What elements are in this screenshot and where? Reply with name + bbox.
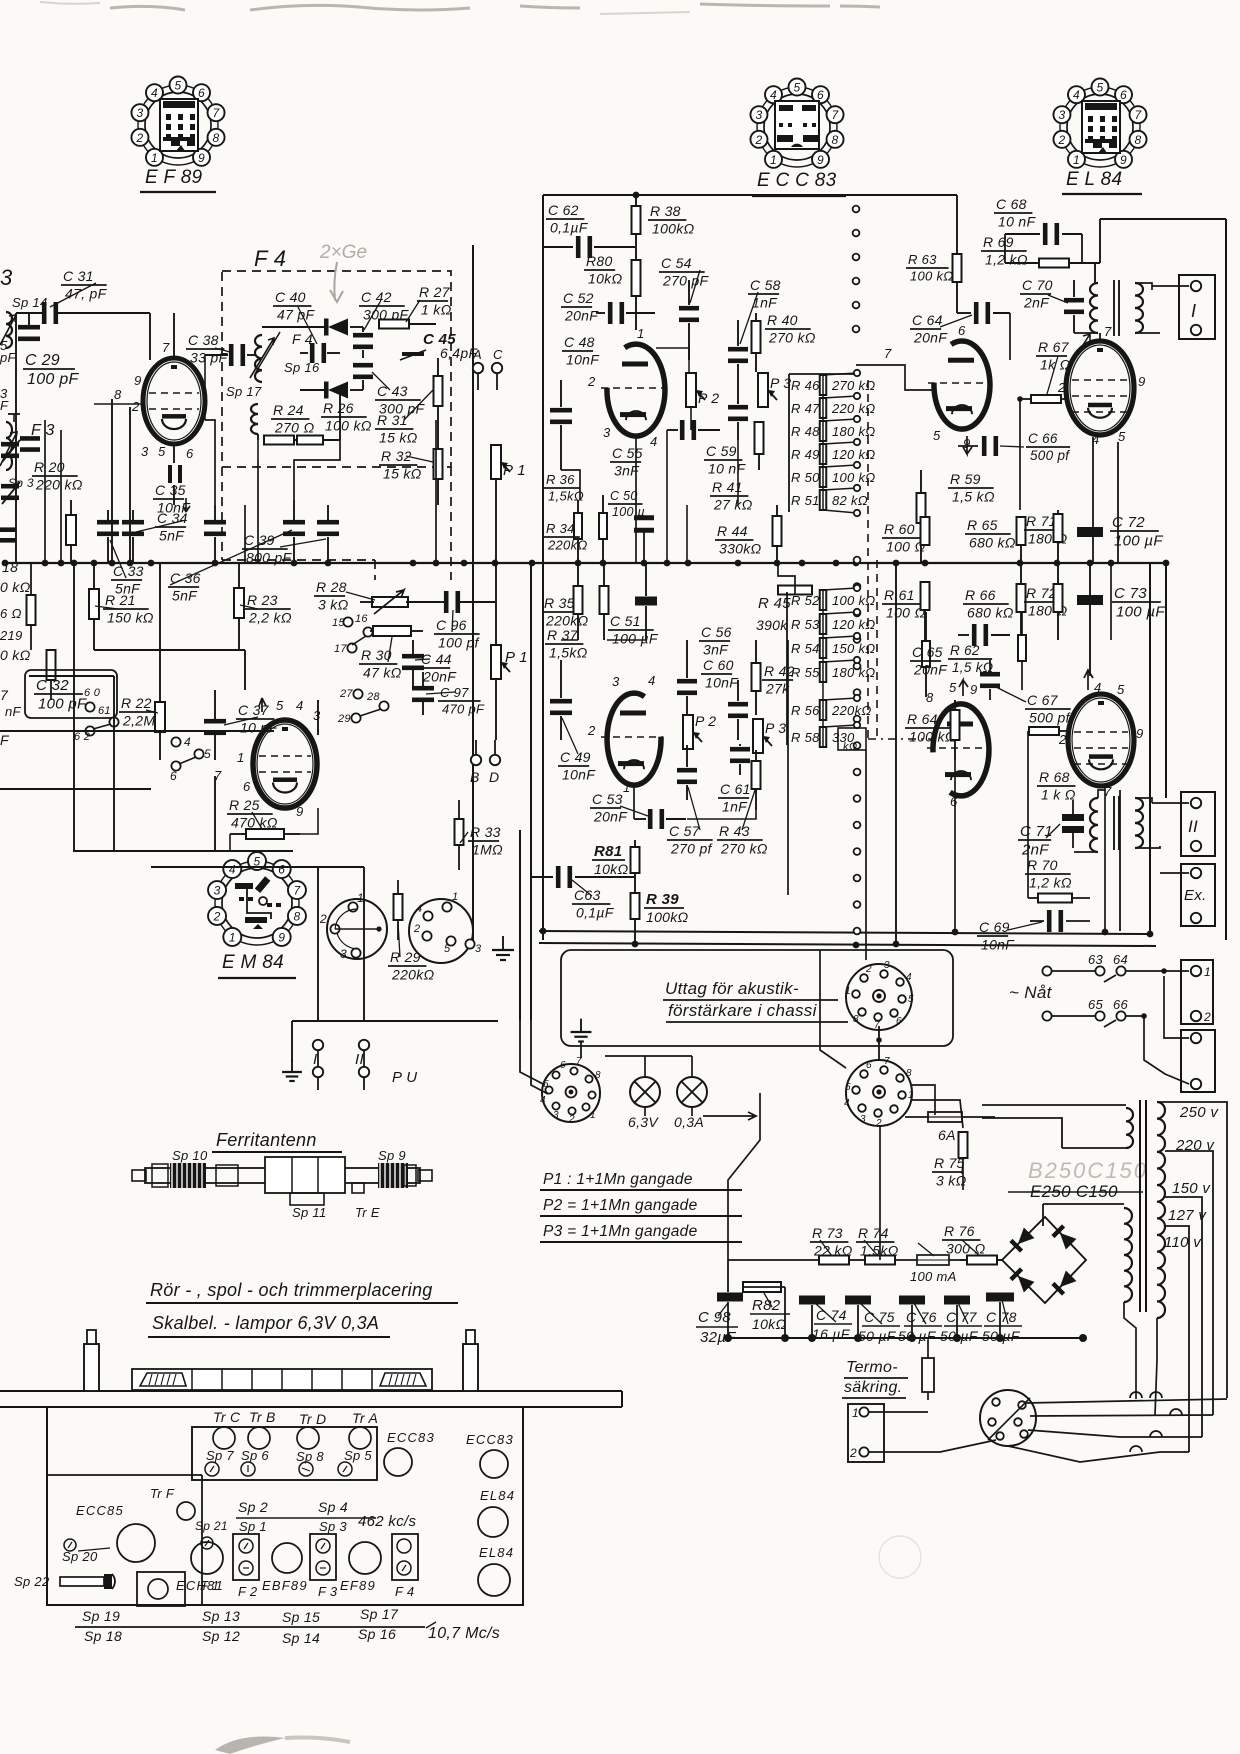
svg-text:Sp 8: Sp 8 (296, 1449, 324, 1464)
label EL84 chassis2 (478, 1545, 514, 1596)
wire f4 to bus (258, 420, 436, 640)
svg-text:EL84: EL84 (480, 1488, 515, 1503)
svg-text:8: 8 (906, 1068, 912, 1079)
wire top bus ECC83 (543, 194, 957, 196)
svg-text:E F 89: E F 89 (145, 167, 203, 188)
svg-text:3: 3 (553, 1110, 559, 1121)
label Sp21 (195, 1519, 228, 1549)
svg-text:2nF: 2nF (1023, 294, 1050, 310)
resistor R59 (917, 470, 995, 563)
capacitor C73 (1077, 585, 1165, 620)
wire ground bus power (724, 1334, 1087, 1342)
svg-text:R 73: R 73 (812, 1225, 843, 1241)
svg-text:100 mA: 100 mA (910, 1269, 957, 1284)
resistor R33 (455, 800, 504, 870)
svg-text:R 55: R 55 (791, 665, 820, 680)
capacitor C39 (242, 505, 339, 565)
svg-text:1 kΩ: 1 kΩ (421, 301, 452, 317)
terminal I (313, 1040, 323, 1068)
svg-text:1MΩ: 1MΩ (472, 841, 503, 857)
svg-text:ECH81: ECH81 (176, 1578, 224, 1593)
svg-text:8: 8 (926, 690, 934, 705)
resistor R73 (810, 1225, 853, 1265)
text P1 ganged (540, 1171, 742, 1190)
tube V4 EL84 (1057, 324, 1146, 447)
wire pu links (292, 1050, 364, 1090)
wire vertical x520 (519, 830, 521, 1020)
chassis panel (47, 1407, 523, 1605)
svg-text:50 µF: 50 µF (858, 1328, 897, 1344)
terminal box II (1152, 792, 1215, 856)
svg-text:5: 5 (845, 1082, 851, 1093)
svg-text:100 pf: 100 pf (438, 634, 481, 650)
svg-text:A: A (472, 347, 482, 362)
svg-text:9: 9 (1136, 726, 1144, 741)
svg-text:220 kΩ: 220 kΩ (831, 401, 876, 416)
svg-text:100 kΩ: 100 kΩ (909, 728, 956, 744)
svg-text:R 70: R 70 (1027, 857, 1058, 873)
capacitor C32 (25, 670, 117, 718)
wire lower bus 1 (539, 931, 1150, 934)
label TrC (205, 1409, 241, 1476)
svg-text:R 26: R 26 (323, 400, 354, 416)
svg-text:63: 63 (1088, 952, 1104, 967)
resistor R31 (375, 358, 443, 445)
svg-text:1: 1 (1204, 965, 1211, 979)
svg-text:C 98: C 98 (698, 1309, 731, 1326)
wire lamps (605, 1056, 756, 1120)
svg-text:6: 6 (243, 779, 251, 794)
resistor left R19 (47, 563, 56, 700)
svg-text:Uttag för akustik-: Uttag för akustik- (665, 979, 799, 998)
wire right vertical x1166 (1165, 563, 1167, 798)
svg-text:66: 66 (1113, 997, 1129, 1012)
svg-text:6,3V: 6,3V (628, 1114, 659, 1130)
svg-text:1,2 kΩ: 1,2 kΩ (985, 251, 1028, 267)
trimmer box TrCBDA (192, 1427, 377, 1480)
svg-text:3: 3 (860, 1114, 866, 1125)
capacitor C76 (898, 1296, 942, 1345)
fuse 6A (905, 1112, 995, 1143)
socket speaker (540, 1056, 601, 1125)
capacitor C38 (186, 332, 256, 366)
svg-text:1,5kΩ: 1,5kΩ (549, 644, 588, 660)
capacitor C65 (910, 624, 1010, 677)
wire mains links (1144, 976, 1189, 1084)
pencil 2xGe (319, 242, 367, 302)
svg-text:Sp 14: Sp 14 (12, 295, 47, 310)
svg-text:150 kΩ: 150 kΩ (107, 609, 154, 625)
bolt Sp22 (14, 1574, 115, 1589)
resistor R41 (710, 421, 764, 512)
resistor R75 (932, 1132, 968, 1190)
svg-text:6 2: 6 2 (74, 731, 90, 743)
svg-text:C 32: C 32 (36, 677, 69, 694)
svg-text:9: 9 (198, 151, 205, 165)
svg-text:100 µF: 100 µF (1116, 603, 1165, 620)
wire caps to bus (728, 1260, 1086, 1338)
svg-text:4: 4 (648, 673, 656, 688)
wire ps verticals (728, 944, 1010, 1287)
svg-text:9: 9 (278, 930, 285, 944)
terminal A (472, 347, 483, 390)
svg-text:100 µF: 100 µF (1114, 532, 1163, 549)
resistor R22 (119, 563, 166, 760)
svg-text:8: 8 (595, 1070, 601, 1081)
label leader lines (50, 270, 1068, 1324)
svg-text:3: 3 (755, 108, 762, 122)
svg-text:220kΩ: 220kΩ (391, 966, 435, 982)
svg-text:100kΩ: 100kΩ (646, 909, 689, 925)
svg-text:20nF: 20nF (593, 808, 628, 824)
svg-text:5nF: 5nF (172, 587, 198, 603)
svg-text:R80: R80 (586, 253, 613, 269)
svg-text:10nF: 10nF (562, 766, 596, 782)
svg-text:6: 6 (950, 794, 958, 809)
svg-text:1: 1 (590, 1110, 596, 1121)
transformer primary winding (1157, 1100, 1165, 1318)
resistor R66 (963, 563, 1026, 640)
junction dots main bus (42, 560, 1170, 567)
svg-text:R 33: R 33 (470, 824, 501, 840)
svg-text:270 kΩ: 270 kΩ (720, 840, 768, 856)
capacitor C66 (958, 431, 1070, 463)
wire r58 frame (838, 728, 866, 960)
svg-text:1: 1 (357, 891, 364, 905)
wire v1 top (174, 313, 205, 358)
svg-text:8: 8 (293, 909, 300, 923)
tube V1 EF89 (114, 340, 205, 461)
tube pos EBF89 (262, 1543, 308, 1593)
switch 65 66 (1042, 997, 1146, 1027)
wire vertical x473 (472, 245, 474, 944)
chassis shelf (0, 1391, 622, 1407)
svg-text:2,2 kΩ: 2,2 kΩ (248, 609, 292, 625)
left cut labels (0, 338, 31, 748)
svg-text:2: 2 (319, 912, 327, 926)
svg-text:47 pF: 47 pF (277, 306, 315, 322)
svg-text:C 51: C 51 (610, 613, 641, 629)
svg-text:100 kΩ: 100 kΩ (910, 268, 954, 283)
svg-text:C 53: C 53 (592, 791, 623, 807)
svg-text:5: 5 (1118, 429, 1126, 444)
svg-text:15: 15 (332, 617, 345, 629)
svg-text:270 pf: 270 pf (670, 840, 714, 856)
svg-text:1: 1 (151, 151, 158, 165)
svg-text:2: 2 (213, 909, 221, 923)
resistor R65 (965, 517, 1026, 563)
svg-text:C 48: C 48 (564, 334, 595, 350)
svg-text:Sp 12: Sp 12 (202, 1628, 240, 1644)
svg-text:Sp 17: Sp 17 (360, 1606, 399, 1622)
svg-text:3 kΩ: 3 kΩ (936, 1172, 967, 1188)
svg-text:4: 4 (1073, 88, 1080, 102)
svg-text:EL84: EL84 (479, 1545, 514, 1560)
svg-text:7: 7 (162, 340, 170, 355)
svg-text:1,5 kΩ: 1,5 kΩ (952, 488, 995, 504)
svg-text:R 39: R 39 (646, 891, 679, 908)
dashed box F4 (222, 271, 451, 467)
svg-text:Tr A: Tr A (352, 1410, 378, 1426)
svg-text:33 pF: 33 pF (190, 349, 228, 365)
wire r73 row (728, 1259, 1002, 1261)
tube V5 EL84 (1058, 670, 1144, 799)
wire crossover bumps (1130, 1392, 1182, 1452)
text P2 ganged (540, 1197, 742, 1216)
svg-text:ECC83: ECC83 (387, 1430, 435, 1445)
resistor ladder R46-R51 (789, 370, 876, 516)
svg-text:110 v: 110 v (1164, 1234, 1202, 1251)
svg-text:C 56: C 56 (701, 624, 732, 640)
svg-text:9: 9 (296, 804, 304, 819)
svg-text:7: 7 (1104, 324, 1112, 339)
svg-text:C: C (493, 347, 503, 362)
svg-text:3: 3 (1058, 108, 1065, 122)
svg-text:P 2: P 2 (695, 713, 716, 729)
svg-text:0,1µF: 0,1µF (550, 219, 589, 235)
svg-text:Sp 16: Sp 16 (358, 1626, 396, 1642)
wire speaker socket (520, 1020, 581, 1094)
terminal I b (313, 1067, 323, 1077)
svg-text:470 pF: 470 pF (442, 701, 485, 716)
svg-text:27: 27 (339, 688, 353, 700)
svg-text:5: 5 (794, 81, 801, 95)
svg-text:R 56: R 56 (791, 703, 820, 718)
svg-text:C 31: C 31 (63, 268, 94, 284)
svg-text:3: 3 (313, 708, 321, 723)
tube pos ECH81 (176, 1542, 224, 1593)
svg-text:Sp 15: Sp 15 (282, 1609, 320, 1625)
svg-text:9: 9 (970, 682, 978, 697)
capacitor C61 (718, 744, 751, 814)
scan smudge bottom (215, 1737, 285, 1754)
svg-text:5: 5 (1097, 81, 1104, 95)
svg-text:270 pF: 270 pF (662, 272, 710, 288)
svg-text:Sp 3: Sp 3 (8, 476, 34, 490)
capacitor C29 (18, 313, 80, 388)
svg-text:Sp 4: Sp 4 (318, 1499, 348, 1515)
tube socket diagram ECC83 (750, 79, 846, 197)
svg-text:5: 5 (949, 680, 957, 695)
svg-text:28: 28 (366, 691, 380, 703)
svg-text:F 2: F 2 (238, 1584, 258, 1599)
svg-text:1,2 kΩ: 1,2 kΩ (1029, 874, 1072, 890)
wire v3a grid (856, 365, 934, 390)
resistor R45 (756, 563, 812, 633)
capacitor C59 (704, 400, 748, 476)
filter F2 (233, 1499, 376, 1599)
svg-text:4: 4 (184, 735, 191, 749)
potentiometer P1 upper (491, 445, 526, 563)
svg-text:R 67: R 67 (1038, 339, 1070, 355)
tap 250V (1157, 1102, 1227, 1398)
svg-text:C 73: C 73 (1114, 585, 1147, 602)
svg-text:E L 84: E L 84 (1066, 169, 1122, 190)
svg-text:R 53: R 53 (791, 617, 820, 632)
socket PU 5pin (409, 891, 482, 963)
svg-text:D: D (489, 769, 499, 785)
switch contacts 27 28 29 (337, 688, 389, 725)
tap 150V (1165, 1180, 1211, 1437)
resistor R76 (942, 1223, 997, 1265)
capacitor C74 (799, 1296, 852, 1343)
svg-text:10nF: 10nF (705, 674, 739, 690)
resistor R39 (631, 891, 689, 944)
text sp rows (75, 1606, 500, 1646)
svg-text:2: 2 (1203, 1010, 1211, 1024)
potentiometer P2 lower (683, 713, 716, 749)
svg-text:6: 6 (958, 323, 966, 338)
svg-text:B250C150: B250C150 (1028, 1158, 1148, 1183)
capacitor C43 (353, 363, 426, 416)
svg-text:6: 6 (896, 1016, 902, 1027)
svg-text:4: 4 (906, 972, 912, 983)
wire left bus (15, 313, 17, 563)
tap 220V (1165, 1137, 1215, 1415)
coil R24 (251, 402, 314, 445)
svg-text:Termo-: Termo- (846, 1359, 898, 1376)
svg-text:R82: R82 (752, 1297, 781, 1314)
svg-text:Sp 16: Sp 16 (284, 360, 320, 375)
wire aux links (820, 950, 963, 1128)
junction dots lower buses (540, 928, 1154, 949)
svg-text:C 78: C 78 (986, 1309, 1017, 1325)
label TrD (296, 1411, 326, 1476)
svg-text:3: 3 (603, 425, 611, 440)
svg-text:F 3: F 3 (318, 1584, 338, 1599)
capacitor C72 (1076, 514, 1163, 549)
svg-text:F: F (0, 732, 10, 748)
svg-text:C 29: C 29 (25, 352, 60, 369)
wire left column verticals (45, 407, 245, 563)
transformer heater winding (982, 1105, 1133, 1148)
resistor R71 (1024, 510, 1067, 563)
svg-text:C 62: C 62 (548, 202, 579, 218)
svg-text:500 pf: 500 pf (1030, 448, 1070, 463)
chassis post right (463, 1330, 478, 1391)
svg-text:220 kΩ: 220 kΩ (35, 476, 83, 492)
svg-text:nF: nF (5, 704, 22, 719)
capacitor C69 (977, 910, 1090, 952)
svg-text:C 40: C 40 (275, 289, 306, 305)
tap 110V (1164, 1234, 1202, 1398)
svg-text:47 kΩ: 47 kΩ (363, 664, 402, 680)
label TrA (338, 1410, 378, 1476)
tap 127V (1165, 1207, 1207, 1452)
resistor R23 (234, 563, 292, 650)
tube V3a ECC83 triode (884, 323, 992, 454)
svg-text:270 kΩ: 270 kΩ (831, 378, 876, 393)
svg-text:Ex.: Ex. (1184, 887, 1207, 904)
svg-text:förstärkare i chassi: förstärkare i chassi (668, 1001, 818, 1020)
svg-text:R 59: R 59 (950, 471, 981, 487)
svg-text:82 kΩ: 82 kΩ (832, 493, 868, 508)
svg-text:680 kΩ: 680 kΩ (969, 534, 1016, 550)
wire vertical x531 (530, 563, 532, 1020)
svg-text:50 µF: 50 µF (898, 1328, 937, 1344)
svg-text:R 34: R 34 (546, 521, 575, 536)
svg-text:10nF: 10nF (566, 351, 600, 367)
svg-text:127 v: 127 v (1168, 1207, 1207, 1224)
svg-text:2: 2 (1057, 133, 1065, 147)
svg-text:5nF: 5nF (159, 527, 185, 543)
svg-text:Sp 10: Sp 10 (172, 1148, 208, 1163)
svg-text:7: 7 (213, 106, 221, 120)
svg-text:R 61: R 61 (884, 587, 915, 603)
svg-text:F 4: F 4 (292, 331, 313, 347)
capacitor C63 (531, 866, 635, 920)
wire v4 pins down (1093, 437, 1118, 563)
svg-text:C 70: C 70 (1022, 277, 1053, 293)
tube socket diagram EM84 (208, 852, 306, 978)
wire right edge vertical (1225, 219, 1227, 940)
resistor R27 (363, 284, 452, 329)
text uttag (663, 979, 848, 1022)
switch contacts 4 5 6 (170, 735, 211, 783)
wire c62 loop (543, 195, 635, 247)
wire mid verticals (687, 430, 896, 944)
wire right edge vertical 2 (1149, 564, 1151, 934)
svg-text:ECC83: ECC83 (466, 1432, 514, 1447)
resistor R34 (544, 495, 607, 563)
capacitor C42 (353, 289, 410, 358)
svg-text:100 pF: 100 pF (38, 695, 87, 712)
capacitor C31 (12, 268, 150, 324)
svg-text:462 kc/s: 462 kc/s (358, 1513, 416, 1530)
capacitor C70 (1020, 277, 1084, 333)
svg-text:390k: 390k (756, 617, 788, 633)
wire lower bus 2 (539, 943, 1156, 946)
tube EM84 indicator (214, 698, 321, 819)
svg-text:20nF: 20nF (564, 307, 599, 323)
ferrite rod (132, 1168, 432, 1183)
svg-text:Sp 13: Sp 13 (202, 1608, 240, 1624)
svg-text:5: 5 (933, 428, 941, 443)
svg-text:Sp 9: Sp 9 (378, 1148, 406, 1163)
svg-text:R 76: R 76 (944, 1223, 975, 1239)
terminal box mains 2 (1155, 971, 1215, 1092)
svg-text:F 4: F 4 (395, 1584, 414, 1599)
svg-text:R 22: R 22 (121, 695, 152, 711)
svg-text:2: 2 (413, 923, 420, 935)
capacitor C50 (608, 430, 667, 563)
svg-text:1: 1 (852, 1406, 859, 1420)
transformer I (1074, 263, 1160, 336)
scan mark top (110, 4, 880, 10)
capacitor C98 (696, 1293, 743, 1347)
resistor left R18 (27, 563, 36, 650)
resistor R40 (752, 312, 816, 372)
wire c31 to tube (149, 313, 151, 360)
svg-text:Sp 14: Sp 14 (282, 1630, 320, 1646)
text placering title (146, 1280, 458, 1303)
capacitor C97 (412, 672, 485, 716)
svg-text:8: 8 (853, 1014, 859, 1025)
svg-text:5: 5 (175, 79, 182, 93)
svg-text:2: 2 (875, 1118, 882, 1129)
svg-text:180 kΩ: 180 kΩ (832, 424, 876, 439)
svg-text:10 nF: 10 nF (998, 213, 1036, 229)
svg-text:Sp 3: Sp 3 (319, 1519, 347, 1534)
svg-text:C 50: C 50 (610, 489, 638, 503)
svg-text:4: 4 (540, 1095, 546, 1106)
svg-text:7: 7 (293, 884, 301, 898)
svg-text:2: 2 (1057, 380, 1066, 395)
svg-text:100kΩ: 100kΩ (652, 220, 695, 236)
tube V2a ECC83 triode (587, 326, 667, 449)
tube pos EF89 (340, 1542, 381, 1593)
svg-text:20nF: 20nF (422, 668, 457, 684)
